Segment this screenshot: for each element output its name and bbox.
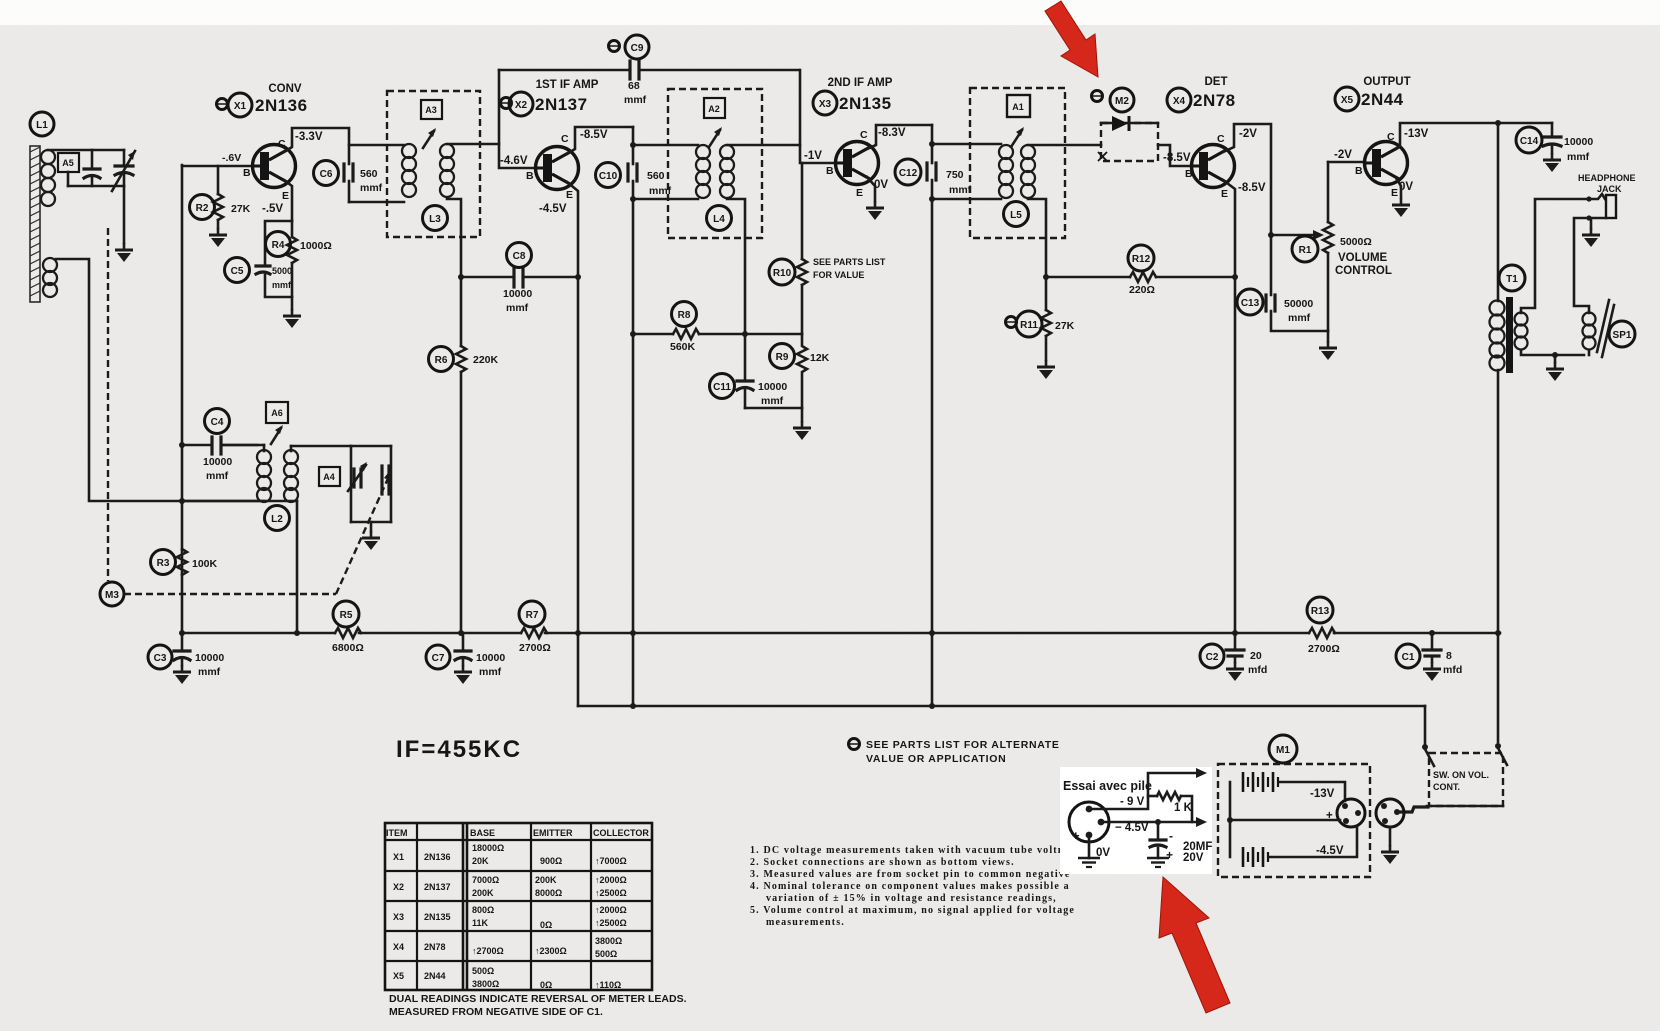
resistor R6 220K <box>429 346 499 634</box>
svg-text:C2: C2 <box>1206 652 1219 663</box>
svg-text:X4: X4 <box>1173 96 1186 107</box>
svg-text:-2V: -2V <box>1334 149 1352 161</box>
svg-text:C13: C13 <box>1241 298 1260 309</box>
diode M2 labels <box>1092 88 1135 112</box>
svg-text:R4: R4 <box>272 240 285 251</box>
tuning capacitor C1 oscillator section <box>382 466 389 494</box>
svg-text:OUTPUT: OUTPUT <box>1363 76 1410 88</box>
resistor R2 27K <box>190 166 251 228</box>
capacitor C11 10000mmf <box>710 374 788 409</box>
svg-text:mmf: mmf <box>949 184 972 196</box>
svg-text:2N135: 2N135 <box>839 94 892 113</box>
svg-text:T1: T1 <box>1506 274 1518 285</box>
svg-text:3800Ω: 3800Ω <box>595 936 622 946</box>
svg-text:560K: 560K <box>670 341 696 353</box>
svg-text:- 9 V: - 9 V <box>1120 796 1145 808</box>
svg-text:10000: 10000 <box>503 288 532 300</box>
transistor X3 <box>804 127 906 199</box>
resistor R11 27K <box>1006 310 1075 360</box>
svg-text:ITEM: ITEM <box>386 828 408 838</box>
svg-text:1000Ω: 1000Ω <box>300 240 332 252</box>
ground <box>1226 662 1244 681</box>
svg-text:27K: 27K <box>231 203 251 215</box>
headphone jack <box>1578 173 1636 221</box>
trimmer A4 label box <box>319 467 340 486</box>
svg-text:R6: R6 <box>435 355 448 366</box>
wire L2 right winding bottom to bus <box>296 501 299 633</box>
transformer T1 label <box>1499 265 1525 291</box>
svg-text:MEASURED FROM NEGATIVE SIDE OF: MEASURED FROM NEGATIVE SIDE OF C1. <box>389 1006 603 1018</box>
svg-text:-.5V: -.5V <box>262 203 283 215</box>
wire test plug to ground <box>1088 838 1091 858</box>
svg-text:E: E <box>1391 187 1398 199</box>
wire T1 primary bottom to bus <box>1497 370 1500 634</box>
svg-text:A6: A6 <box>271 408 283 418</box>
wire X4 emitter column <box>1223 180 1235 634</box>
svg-text:+: + <box>1072 828 1080 843</box>
svg-text:E: E <box>282 190 289 202</box>
svg-text:10000: 10000 <box>476 652 505 664</box>
svg-text:+: + <box>1166 848 1173 862</box>
wire R9 to ground <box>801 408 804 421</box>
wire below C10 to bus <box>632 181 635 706</box>
svg-text:500Ω: 500Ω <box>595 949 617 959</box>
wire battery left leg <box>1229 782 1232 857</box>
L5 label <box>1004 202 1029 227</box>
wire collector to A2 primary <box>633 144 698 147</box>
svg-text:L5: L5 <box>1010 210 1022 221</box>
node wiper junction <box>1268 232 1274 238</box>
A3 label box <box>421 100 442 119</box>
svg-text:1 K: 1 K <box>1174 802 1193 814</box>
wire X3 collector <box>867 125 932 149</box>
wire ground stub <box>1554 355 1557 362</box>
svg-text:SEE PARTS LIST FOR ALTERNATE: SEE PARTS LIST FOR ALTERNATE <box>866 739 1060 751</box>
table row X5 <box>393 966 621 990</box>
switch dashed box <box>1429 753 1503 806</box>
svg-text:C4: C4 <box>211 417 224 428</box>
svg-text:SEE PARTS LIST: SEE PARTS LIST <box>813 257 886 267</box>
wire X5 emitter to ground <box>1396 178 1401 198</box>
dashed gang wire M3 horizontal <box>124 593 336 595</box>
svg-text:7000Ω: 7000Ω <box>472 875 499 885</box>
wire X2 collector <box>567 127 633 154</box>
battery B2 cells <box>1243 847 1268 867</box>
node C4 junctions <box>179 442 185 448</box>
wire X1 collector <box>284 128 349 164</box>
capacitor C4 10000mmf <box>182 409 257 483</box>
svg-text:B: B <box>526 170 534 182</box>
L2 label <box>265 506 290 531</box>
svg-text:68: 68 <box>628 80 640 92</box>
svg-text:20: 20 <box>1250 650 1262 662</box>
svg-text:L2: L2 <box>271 514 283 525</box>
transistor X4 <box>1163 128 1266 200</box>
svg-text:C14: C14 <box>1520 136 1539 147</box>
stage title DET X4 2N78 <box>1167 76 1236 112</box>
svg-text:A1: A1 <box>1012 102 1024 112</box>
wire switch output rail <box>1427 805 1503 808</box>
transformer T1 core <box>1506 297 1513 373</box>
ground <box>1582 228 1600 247</box>
wire A2 secondary bottom <box>727 199 745 380</box>
ground <box>1392 198 1410 217</box>
switch contacts on volume control <box>1422 743 1507 766</box>
ground <box>1037 360 1055 379</box>
ground <box>454 665 472 684</box>
svg-text:mmf: mmf <box>1288 312 1311 324</box>
node X1 base column top <box>181 165 184 634</box>
svg-text:X2: X2 <box>515 100 528 111</box>
svg-text:C9: C9 <box>631 43 644 54</box>
wire rail to battery plug <box>1398 807 1428 812</box>
svg-text:B: B <box>826 165 834 177</box>
wire X1 base <box>182 165 252 168</box>
dashed gang wire diagonal to A4 <box>336 468 392 594</box>
svg-text:2700Ω: 2700Ω <box>519 642 551 654</box>
svg-text:R7: R7 <box>526 610 539 621</box>
resistor R7 2700ohm <box>519 601 551 654</box>
wire plug to ground <box>1389 827 1392 845</box>
notes text block <box>750 845 1083 928</box>
svg-text:HEADPHONE: HEADPHONE <box>1578 173 1636 183</box>
table row X1 <box>393 843 627 866</box>
red arrow pointing to M2 <box>1045 1 1098 77</box>
wire L2 right winding top to A4 <box>291 445 351 448</box>
svg-text:10000: 10000 <box>1564 136 1593 148</box>
svg-text:mmf: mmf <box>1567 151 1590 163</box>
svg-text:5. Volume control at maximum,: 5. Volume control at maximum, no signal … <box>750 905 1075 916</box>
svg-text:C1: C1 <box>1402 652 1415 663</box>
ground <box>1381 845 1399 864</box>
wire collector to A1 primary <box>932 143 1001 146</box>
wire tuning box to ground <box>370 522 373 531</box>
resistor R5 6800ohm <box>332 601 364 654</box>
capacitor C8 10000mmf <box>461 243 578 315</box>
resistor 1K <box>1148 792 1193 822</box>
svg-text:2N44: 2N44 <box>1361 90 1404 109</box>
tuning capacitor C1 antenna section <box>112 150 135 191</box>
oscillator tuning enclosure <box>351 446 391 522</box>
svg-text:20V: 20V <box>1183 852 1204 864</box>
transistor X2 <box>500 129 608 215</box>
svg-text:0Ω: 0Ω <box>540 980 552 990</box>
svg-text:A3: A3 <box>425 105 437 115</box>
ground <box>362 531 380 550</box>
svg-text:C12: C12 <box>899 168 918 179</box>
svg-text:-: - <box>1169 829 1173 843</box>
svg-text:B: B <box>1355 165 1363 177</box>
table header row <box>386 828 649 838</box>
svg-text:2N44: 2N44 <box>424 971 446 981</box>
ground <box>866 201 884 220</box>
wire second bus drop to switch <box>1424 706 1427 744</box>
svg-text:↑2500Ω: ↑2500Ω <box>595 918 627 928</box>
svg-text:C6: C6 <box>320 169 333 180</box>
svg-text:X3: X3 <box>819 99 832 110</box>
L2 tuning slug arrow <box>271 425 283 444</box>
svg-text:mfd: mfd <box>1443 664 1462 676</box>
capacitor C13 50000mmf <box>1237 289 1313 324</box>
ground <box>173 665 191 684</box>
node A1 primary junctions <box>929 141 935 147</box>
wire A3 primary bottom <box>349 201 404 204</box>
svg-text:mmf: mmf <box>624 94 647 106</box>
resistor R13 2700ohm <box>1307 597 1340 655</box>
svg-text:X2: X2 <box>393 882 404 892</box>
svg-text:560: 560 <box>360 168 378 180</box>
svg-text:↑2300Ω: ↑2300Ω <box>535 946 567 956</box>
svg-text:10000: 10000 <box>758 381 787 393</box>
svg-text:A4: A4 <box>323 472 335 482</box>
svg-text:4. Nominal tolerance on compo: 4. Nominal tolerance on component values… <box>750 881 1070 892</box>
capacitor C3 10000mmf <box>148 633 224 678</box>
node R12 junctions <box>1043 274 1049 280</box>
trimmer A5 box <box>58 153 79 172</box>
svg-text:-4.5V: -4.5V <box>539 203 567 215</box>
svg-text:R8: R8 <box>678 310 691 321</box>
svg-text:27K: 27K <box>1055 320 1075 332</box>
main negative bus wire <box>182 632 1500 635</box>
svg-text:L1: L1 <box>36 120 48 131</box>
svg-text:C: C <box>1387 131 1395 143</box>
potentiometer R1 5000 volume control <box>1292 162 1392 331</box>
node T1 junction <box>1495 120 1501 126</box>
svg-text:E: E <box>566 189 573 201</box>
svg-text:C5: C5 <box>231 266 244 277</box>
wire A1 secondary top to diode <box>1028 144 1101 147</box>
svg-text:JACK: JACK <box>1597 184 1622 194</box>
wire B1 to plug <box>1280 782 1345 801</box>
svg-text:2N136: 2N136 <box>255 96 308 115</box>
svg-text:2N78: 2N78 <box>424 942 446 952</box>
svg-text:R9: R9 <box>776 352 789 363</box>
A2 tuning slug arrow <box>709 127 722 147</box>
svg-text:X3: X3 <box>393 912 404 922</box>
svg-text:FOR VALUE: FOR VALUE <box>813 270 864 280</box>
A2 label box <box>704 98 725 118</box>
svg-text:CONV: CONV <box>268 83 302 95</box>
svg-text:900Ω: 900Ω <box>540 856 562 866</box>
svg-text:3800Ω: 3800Ω <box>472 979 499 989</box>
wire A1 secondary bottom to R11 <box>1028 199 1046 310</box>
transistor X5 <box>1334 128 1429 199</box>
svg-text:2N137: 2N137 <box>424 882 451 892</box>
node C8 junctions <box>458 274 464 280</box>
svg-text:-4.5V: -4.5V <box>1316 845 1344 857</box>
svg-text:2700Ω: 2700Ω <box>1308 643 1340 655</box>
ground <box>115 243 133 262</box>
svg-text:mmf: mmf <box>206 470 229 482</box>
A1 secondary winding L5 <box>1021 145 1035 198</box>
svg-text:B: B <box>243 167 251 179</box>
table row X4 <box>393 936 622 959</box>
ground <box>283 309 301 328</box>
wire T1 secondary bottom <box>1521 350 1584 355</box>
antenna secondary winding <box>43 258 57 297</box>
wire battery common <box>1230 819 1340 822</box>
svg-text:8000Ω: 8000Ω <box>535 888 562 898</box>
A1 primary winding <box>999 145 1013 198</box>
A1 tuning slug arrow <box>1011 127 1024 147</box>
svg-text:2ND IF AMP: 2ND IF AMP <box>828 77 893 89</box>
diode M2 <box>1101 116 1158 131</box>
svg-text:↑110Ω: ↑110Ω <box>595 980 621 990</box>
capacitor C5 5000mmf <box>225 221 293 297</box>
wire antenna top <box>48 149 124 152</box>
node X mark on M2 box <box>1098 152 1107 161</box>
svg-text:500Ω: 500Ω <box>472 966 494 976</box>
oscillator transformer L2 left winding <box>257 450 271 502</box>
IF transformer A3 dashed enclosure <box>387 91 480 237</box>
svg-text:2N137: 2N137 <box>535 95 588 114</box>
svg-text:2N136: 2N136 <box>424 852 451 862</box>
svg-text:C: C <box>561 133 569 145</box>
wire X4 collector <box>1223 124 1271 295</box>
svg-text:C: C <box>278 138 286 150</box>
transistor X1 <box>222 131 323 215</box>
A2 secondary winding L4 <box>720 145 734 198</box>
svg-text:mmf: mmf <box>761 395 784 407</box>
wire L2 left winding bottom to junction <box>182 500 264 503</box>
svg-text:X1: X1 <box>234 101 247 112</box>
ground <box>1543 153 1561 172</box>
battery plug M1 <box>1326 799 1365 827</box>
svg-text:mmf: mmf <box>360 182 383 194</box>
svg-text:E: E <box>856 187 863 199</box>
svg-text:3. Measured values are from s: 3. Measured values are from socket pin t… <box>750 869 1071 880</box>
svg-text:CONT.: CONT. <box>1433 782 1460 792</box>
capacitor C9 68mmf top coupling <box>499 35 799 106</box>
svg-text:20K: 20K <box>472 856 489 866</box>
node battery common junction <box>1227 817 1233 823</box>
svg-text:C8: C8 <box>513 251 526 262</box>
test plug <box>1069 802 1110 859</box>
wire X3 emitter to ground <box>867 177 875 201</box>
wire below C6 <box>348 181 351 202</box>
wire below C12 to bus <box>931 180 934 706</box>
svg-text:A5: A5 <box>62 158 74 168</box>
IF transformer A2 dashed enclosure <box>668 89 762 238</box>
stage title 2ND IF AMP X3 2N135 <box>813 77 893 115</box>
node R8 junction <box>742 331 748 337</box>
wire X1 emitter <box>284 180 292 221</box>
switch label <box>1433 770 1489 792</box>
svg-text:-8.3V: -8.3V <box>878 127 906 139</box>
wire jack ring to speaker <box>1574 218 1589 313</box>
oscillator transformer L2 right winding <box>284 450 298 502</box>
ground <box>1423 662 1441 681</box>
A3 primary winding <box>402 144 416 197</box>
wire -4.5V line <box>1104 817 1207 834</box>
svg-text:-8.5V: -8.5V <box>1238 182 1266 194</box>
parts list alternate note <box>849 739 1060 766</box>
capacitor C10 560mmf <box>596 163 672 198</box>
capacitor C1 8mfd <box>1396 633 1462 676</box>
transformer T1 primary winding <box>1490 301 1505 371</box>
svg-text:2. Socket connections are sho: 2. Socket connections are shown as botto… <box>750 857 1015 868</box>
wire jack sleeve to ground <box>1590 219 1593 228</box>
svg-text:R12: R12 <box>1132 254 1151 265</box>
wire B2 to plug <box>1270 827 1357 857</box>
svg-text:220Ω: 220Ω <box>1129 284 1155 296</box>
wire secondary to base column <box>56 259 182 501</box>
ferrite rod <box>30 146 40 302</box>
svg-text:CONTROL: CONTROL <box>1335 265 1392 277</box>
svg-text:-8.5V: -8.5V <box>580 129 608 141</box>
resistor R3 100K <box>151 549 218 575</box>
wire T1 primary column <box>1497 123 1500 301</box>
transformer T1 secondary winding <box>1515 313 1528 350</box>
wire X2 collector column <box>632 127 635 164</box>
svg-text:R13: R13 <box>1311 606 1330 617</box>
wire X3 collector column <box>931 125 934 163</box>
svg-text:R11: R11 <box>1020 320 1038 331</box>
svg-text:Essai avec pile: Essai avec pile <box>1063 779 1152 793</box>
dashed tuning gang line <box>107 228 109 581</box>
wire X2 emitter column <box>567 182 578 706</box>
trimmer capacitor across antenna coil <box>84 150 100 186</box>
table row X3 <box>393 905 627 930</box>
ground <box>1319 341 1337 360</box>
stage title OUTPUT X5 2N44 <box>1335 76 1411 111</box>
svg-text:DET: DET <box>1205 76 1228 88</box>
ground <box>209 228 227 247</box>
svg-text:C7: C7 <box>432 653 445 664</box>
L3 label <box>423 206 448 231</box>
svg-text:↑2000Ω: ↑2000Ω <box>595 875 627 885</box>
wire bus drop to switch 2 <box>1497 633 1500 742</box>
svg-text:1. DC voltage measurements ta: 1. DC voltage measurements taken with va… <box>750 845 1083 856</box>
wire pot to ground <box>1327 331 1330 341</box>
svg-text:R10: R10 <box>773 268 792 279</box>
secondary bottom bus wire <box>578 705 1425 708</box>
voltage table frame <box>385 823 652 990</box>
wire A1 primary bottom <box>932 198 1001 201</box>
svg-text:C3: C3 <box>154 653 167 664</box>
battery B1 cells <box>1243 772 1278 792</box>
svg-text:X5: X5 <box>393 971 404 981</box>
wire speaker bottom <box>1588 350 1591 355</box>
svg-text:B: B <box>1185 168 1193 180</box>
wire C9 column <box>498 70 501 144</box>
node 20MF junction <box>1155 819 1161 825</box>
svg-text:X1: X1 <box>393 852 404 862</box>
ground <box>1546 362 1564 381</box>
svg-text:2N78: 2N78 <box>1193 91 1236 110</box>
svg-text:X5: X5 <box>1341 95 1354 106</box>
node secondary ground junction <box>1552 352 1558 358</box>
wire A5 stub <box>67 172 70 186</box>
wire L2 left winding top <box>221 444 264 447</box>
svg-text:↑7000Ω: ↑7000Ω <box>595 856 627 866</box>
svg-text:11K: 11K <box>472 918 489 928</box>
capacitor 20MF 20V <box>1150 822 1212 864</box>
IF transformer A1 dashed enclosure <box>970 88 1065 238</box>
svg-text:6800Ω: 6800Ω <box>332 642 364 654</box>
svg-text:0Ω: 0Ω <box>540 920 552 930</box>
svg-text:↑2000Ω: ↑2000Ω <box>595 905 627 915</box>
svg-text:DUAL READINGS INDICATE REVERSA: DUAL READINGS INDICATE REVERSAL OF METER… <box>389 993 687 1005</box>
battery M1 label <box>1269 735 1297 763</box>
resistor R12 220ohm <box>1046 245 1235 296</box>
wire antenna bottom <box>68 185 124 188</box>
wire -9V line <box>1092 768 1207 809</box>
svg-text:18000Ω: 18000Ω <box>472 843 504 853</box>
ground <box>1078 850 1100 867</box>
A1 label box <box>1007 95 1030 117</box>
svg-text:X4: X4 <box>393 942 404 952</box>
